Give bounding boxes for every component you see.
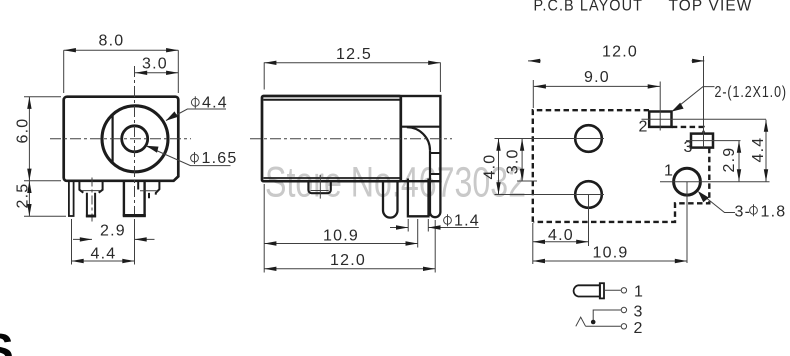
dim 4.0 left (rotated) xyxy=(498,139,500,195)
pin (right U) xyxy=(430,181,441,217)
dim 4.4 right (rotated) xyxy=(765,120,767,182)
left ext for 4.0/3.0 xyxy=(495,138,532,140)
pad2 center line vertical xyxy=(659,82,661,131)
svg-text:8.0: 8.0 xyxy=(99,33,125,50)
dim 4.4 xyxy=(72,260,135,262)
svg-text:4.4: 4.4 xyxy=(91,245,117,262)
svg-text:4.0: 4.0 xyxy=(481,154,498,180)
dim 2.9 extension lines xyxy=(71,219,73,265)
dim 12.0 xyxy=(264,268,435,270)
pin 1 (thin side pin) xyxy=(69,181,74,216)
dim 6.0 xyxy=(28,97,30,181)
dim 8.0 xyxy=(64,49,179,51)
dim 3.0 xyxy=(135,72,178,74)
svg-text:3-: 3- xyxy=(735,204,752,221)
dim 3.0 left (rotated) xyxy=(521,139,523,182)
svg-text:1: 1 xyxy=(664,163,674,180)
svg-text:12.0: 12.0 xyxy=(330,252,366,269)
dim 12.0 top (arrow stubs) xyxy=(528,60,541,62)
svg-text:10.9: 10.9 xyxy=(323,228,359,245)
center line vertical xyxy=(134,66,136,220)
center line horizontal xyxy=(50,138,191,140)
svg-text:3: 3 xyxy=(634,304,644,321)
3.0 bottom ext xyxy=(517,180,537,182)
dim 10.9 xyxy=(264,243,418,245)
leader phi4.4 xyxy=(166,109,226,121)
dim 8.0 extension lines xyxy=(63,50,65,93)
hole T center line xyxy=(495,138,605,140)
pin 2 lead xyxy=(87,193,95,217)
svg-text:1.8: 1.8 xyxy=(761,204,787,221)
pin (left U) xyxy=(383,181,398,217)
svg-text:4.4: 4.4 xyxy=(202,95,228,112)
hole B ext down xyxy=(588,195,590,247)
pin 3 shoulder xyxy=(138,181,159,198)
dim 4.0 bottom xyxy=(533,241,589,243)
svg-text:P.C.B LAYOUT: P.C.B LAYOUT xyxy=(534,0,644,15)
hole top-left xyxy=(575,125,602,152)
dim 12.5 xyxy=(264,62,440,64)
leader 3-phi1.8 xyxy=(700,193,735,213)
body bottom inner line xyxy=(264,177,401,179)
hole 1 (phi1.8) xyxy=(674,168,701,195)
plug flange xyxy=(600,283,604,298)
center pin terminal phi1.4 xyxy=(408,179,429,217)
bottom left ext vertical xyxy=(532,223,534,264)
hole1 center line right xyxy=(660,181,709,183)
pcb outline dashed left+top xyxy=(533,110,649,222)
barrel opening arc xyxy=(407,127,430,150)
hole bottom-left xyxy=(575,181,602,208)
dim phi1.4 (pin width) xyxy=(407,219,409,232)
pin 2 lead xyxy=(586,325,621,327)
svg-text:4.4: 4.4 xyxy=(750,137,767,163)
svg-text:3: 3 xyxy=(684,139,694,156)
center pin hole phi1.65 xyxy=(122,126,148,152)
body lid seam line xyxy=(263,99,401,101)
svg-text:1: 1 xyxy=(634,284,644,301)
leader 2-(1.2X1.0) xyxy=(674,87,715,111)
12.0 right ext vertical xyxy=(703,56,705,148)
mounting tab xyxy=(308,181,330,193)
svg-text:TOP VIEW: TOP VIEW xyxy=(669,0,753,15)
svg-text:1.65: 1.65 xyxy=(202,150,238,167)
svg-text:2.9: 2.9 xyxy=(100,223,126,240)
barrel circle phi4.4 xyxy=(102,106,168,172)
pin 1 lead xyxy=(604,289,621,291)
chord line inside barrel xyxy=(111,115,113,162)
terminal circle 1 xyxy=(621,288,626,293)
svg-text:12.5: 12.5 xyxy=(336,46,372,63)
terminal circle 3 xyxy=(621,307,626,312)
dim 9.0 xyxy=(534,85,660,87)
center line horizontal xyxy=(250,138,452,140)
pad3 center line right xyxy=(686,140,741,142)
pad2 center line right xyxy=(642,118,767,120)
svg-text:S: S xyxy=(0,324,14,356)
svg-text:9.0: 9.0 xyxy=(584,69,610,86)
svg-text:1.4: 1.4 xyxy=(454,213,480,230)
pad 3 xyxy=(691,134,713,148)
svg-text:3.0: 3.0 xyxy=(505,148,522,174)
plug barrel symbol xyxy=(574,285,600,296)
svg-text:2: 2 xyxy=(639,118,649,135)
tab center line xyxy=(319,175,321,199)
svg-text:12.0: 12.0 xyxy=(602,44,638,61)
contact dot xyxy=(591,320,596,325)
dim 2.9 right (rotated) xyxy=(738,141,740,182)
svg-text:10.9: 10.9 xyxy=(593,245,629,262)
dim 10.9 bottom xyxy=(533,260,687,262)
svg-text:6.0: 6.0 xyxy=(14,118,31,144)
switch lever xyxy=(576,317,586,326)
pin 2 shoulder xyxy=(79,181,102,193)
barrel opening top line xyxy=(401,126,441,128)
dim 2.5 xyxy=(28,181,30,216)
jack body (front view) xyxy=(64,97,179,181)
12.0 left ext vertical xyxy=(532,80,534,108)
terminal circle 2 xyxy=(621,324,626,329)
dim 6.0 / 2.5 extension ticks xyxy=(24,96,61,98)
svg-text:2.9: 2.9 xyxy=(721,147,738,173)
pcb outline dashed right+notch+bottom xyxy=(534,148,710,222)
jack body (side view) xyxy=(262,96,401,181)
hole1 ext down xyxy=(686,182,688,263)
leader phi1.65 xyxy=(146,146,230,166)
pad 2 xyxy=(649,112,671,127)
pcb outline dashed top-right step xyxy=(672,127,704,134)
pin 3 lead xyxy=(593,310,621,321)
barrel housing (side view) xyxy=(401,96,441,181)
dim 12.5 extension lines xyxy=(263,62,265,89)
pin 2 center line xyxy=(91,178,93,222)
svg-text:3.0: 3.0 xyxy=(142,55,168,72)
svg-text:2.5: 2.5 xyxy=(14,183,31,209)
svg-text:2: 2 xyxy=(634,320,644,337)
pin 3 (wide flat pin) xyxy=(124,181,145,215)
dim 10.9 extension lines xyxy=(263,184,265,273)
dim 2.9 (outside arrows) xyxy=(73,238,92,240)
dim 12.0 extension line xyxy=(434,220,436,273)
svg-text:2-(1.2X1.0): 2-(1.2X1.0) xyxy=(715,84,788,101)
barrel inner edge xyxy=(429,150,431,216)
hole B center line xyxy=(495,194,605,196)
barrel step lines xyxy=(430,152,440,154)
svg-text:4.0: 4.0 xyxy=(548,227,574,244)
